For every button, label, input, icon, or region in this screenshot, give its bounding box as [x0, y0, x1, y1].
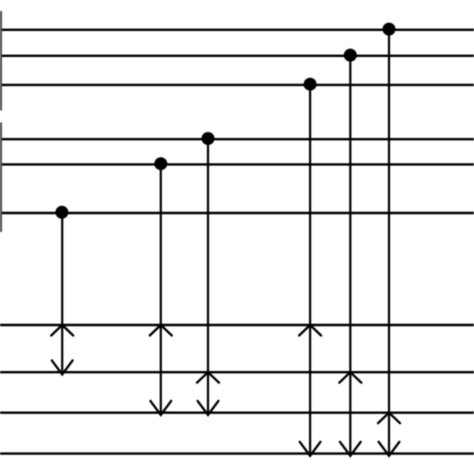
- left dashed border segment 1: [0, 11, 2, 111]
- wire y3 (bottom register line 3): [0, 412, 474, 414]
- down arrowhead gate 6 at wire y4: [379, 442, 400, 456]
- control dot gate 2 on wire x5: [154, 157, 167, 170]
- up arrowhead gate 4 at wire y1: [299, 325, 321, 336]
- left dashed border segment 2: [0, 122, 2, 232]
- wire y2 (bottom register line 2): [0, 371, 474, 373]
- wire x2 (top register line 2): [2, 55, 474, 57]
- wire: vertical line gate 1 (x6 to y2): [61, 213, 63, 375]
- wire x5 (top register line 5): [2, 163, 474, 165]
- up arrowhead gate 1 at wire y1: [51, 325, 73, 336]
- down arrowhead gate 1 at wire y2: [52, 360, 73, 374]
- wire: vertical line gate 4 (x3 to y4): [309, 85, 311, 457]
- control dot gate 6 on wire x1: [383, 23, 396, 36]
- wire: vertical line gate 3 (x4 to y3): [207, 139, 209, 415]
- up arrowhead gate 6 at wire y3: [378, 413, 400, 424]
- down arrowhead gate 4 at wire y4: [300, 442, 321, 456]
- control dot gate 3 on wire x4: [202, 132, 215, 145]
- control dot gate 4 on wire x3: [304, 78, 317, 91]
- wire: vertical line gate 2 (x5 to y3): [160, 164, 162, 415]
- wire: vertical line gate 5 (x2 to y4): [349, 55, 351, 456]
- wire: vertical line gate 6 (x1 to y4): [388, 29, 390, 456]
- down arrowhead gate 5 at wire y4: [340, 442, 361, 456]
- wire y4 (bottom register line 4): [0, 452, 474, 454]
- control dot gate 1 on wire x6: [55, 206, 68, 219]
- up arrowhead gate 5 at wire y2: [339, 372, 361, 383]
- wire x3 (top register line 3): [2, 84, 474, 86]
- wire x1 (top register line 1): [2, 29, 474, 31]
- control dot gate 5 on wire x2: [344, 49, 357, 62]
- wire y1 (bottom register line 1): [0, 324, 474, 326]
- wire x4 (top register line 4): [2, 138, 474, 140]
- up arrowhead gate 2 at wire y1: [150, 325, 172, 336]
- wire x6 (top register line 6): [2, 212, 474, 214]
- up arrowhead gate 3 at wire y2: [197, 372, 219, 383]
- down arrowhead gate 2 at wire y3: [150, 401, 171, 415]
- down arrowhead gate 3 at wire y3: [198, 401, 219, 415]
